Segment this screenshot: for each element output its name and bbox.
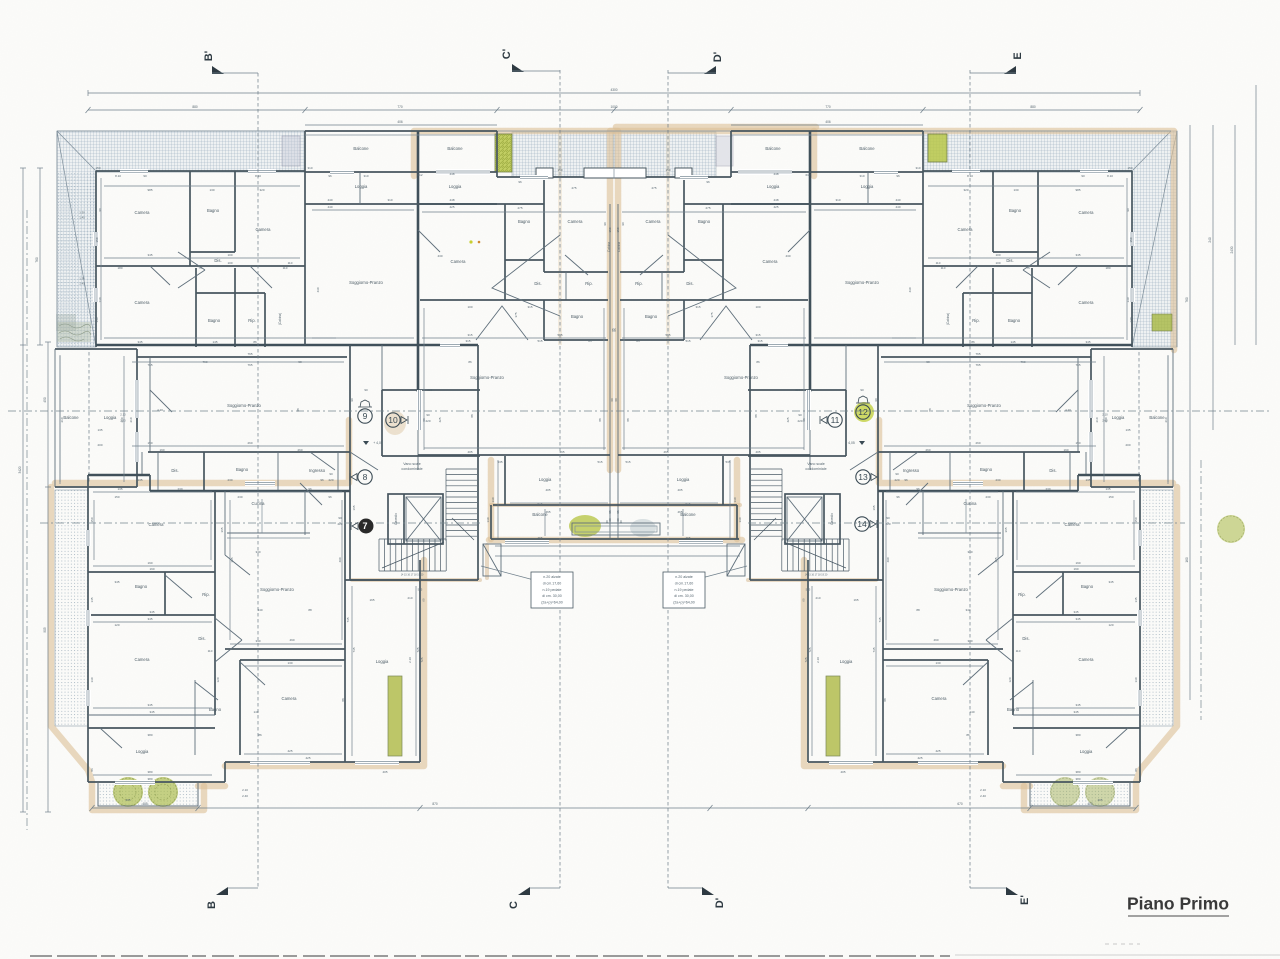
- svg-text:515: 515: [665, 333, 670, 337]
- svg-text:7: 7: [362, 521, 367, 531]
- vertical dash left margin: [26, 210, 28, 830]
- svg-text:Balcone: Balcone: [859, 146, 875, 151]
- green trees bottom-left terrace: [113, 777, 143, 807]
- svg-text:765: 765: [1075, 363, 1080, 367]
- svg-text:110: 110: [288, 261, 293, 265]
- terrace box bottom-left: [97, 782, 99, 806]
- svg-text:Camera: Camera: [135, 657, 151, 662]
- dotted terrace bottom-left wing: [98, 782, 198, 806]
- svg-text:150: 150: [1134, 517, 1138, 522]
- svg-text:100: 100: [995, 253, 1000, 257]
- svg-text:190: 190: [1073, 567, 1078, 571]
- green blob center balcony: [569, 515, 601, 537]
- svg-text:Piano Primo: Piano Primo: [1127, 894, 1229, 914]
- svg-text:86: 86: [1134, 768, 1138, 772]
- svg-text:Dis.: Dis.: [686, 281, 693, 286]
- svg-text:448: 448: [449, 198, 454, 202]
- svg-text:Rip.: Rip.: [635, 281, 642, 286]
- svg-text:380: 380: [1075, 733, 1080, 737]
- svg-text:D': D': [712, 51, 724, 62]
- svg-text:515: 515: [685, 502, 690, 506]
- svg-text:96: 96: [320, 478, 324, 482]
- svg-text:365: 365: [1004, 527, 1008, 532]
- svg-text:200: 200: [1125, 443, 1130, 447]
- stair block walls: [349, 345, 351, 580]
- svg-text:C': C': [501, 48, 513, 59]
- svg-text:515: 515: [557, 333, 562, 337]
- svg-text:210: 210: [407, 596, 412, 600]
- svg-text:430: 430: [785, 254, 790, 258]
- hatched terrace top-right corner: [923, 131, 1177, 347]
- svg-text:Bagno: Bagno: [207, 208, 220, 213]
- svg-text:985: 985: [1075, 188, 1080, 192]
- svg-text:Cabina: Cabina: [607, 242, 611, 252]
- svg-text:525: 525: [806, 588, 811, 592]
- svg-text:310: 310: [859, 174, 864, 178]
- svg-text:4.20: 4.20: [157, 408, 163, 412]
- svg-text:2.10: 2.10: [1102, 413, 1108, 417]
- svg-text:Soggiorno-Pranzo: Soggiorno-Pranzo: [470, 375, 504, 380]
- svg-text:230: 230: [237, 495, 242, 499]
- svg-text:440: 440: [895, 205, 900, 209]
- svg-text:310: 310: [307, 166, 312, 170]
- svg-text:405: 405: [545, 488, 550, 492]
- svg-text:Camera: Camera: [1079, 300, 1095, 305]
- svg-text:96: 96: [896, 174, 900, 178]
- svg-text:Bagno: Bagno: [518, 219, 531, 224]
- section line D dashes: [667, 70, 669, 888]
- svg-text:190: 190: [147, 441, 152, 445]
- balcone divider: [496, 131, 498, 177]
- svg-text:Cabina: Cabina: [617, 242, 621, 252]
- svg-text:765: 765: [975, 352, 980, 356]
- svg-text:Camera: Camera: [958, 227, 974, 232]
- svg-text:130: 130: [738, 517, 742, 522]
- horizontal centerline: [8, 410, 1272, 412]
- svg-text:165: 165: [369, 598, 374, 602]
- svg-text:275: 275: [651, 186, 656, 190]
- colored specks: [469, 240, 472, 243]
- lavender planter box right: [716, 136, 733, 166]
- svg-text:E': E': [1019, 895, 1031, 905]
- svg-text:210: 210: [129, 417, 133, 422]
- svg-text:380: 380: [147, 770, 152, 774]
- scan artifact bottom edge: [30, 955, 950, 957]
- svg-text:448: 448: [449, 172, 454, 176]
- svg-text:345: 345: [149, 710, 154, 714]
- svg-text:2.10: 2.10: [980, 788, 986, 792]
- crown vents: [358, 400, 372, 407]
- svg-text:60: 60: [610, 398, 614, 402]
- svg-text:230: 230: [227, 478, 232, 482]
- svg-text:448: 448: [773, 172, 778, 176]
- svg-text:345: 345: [147, 703, 152, 707]
- svg-text:86: 86: [966, 733, 970, 737]
- svg-text:770: 770: [397, 105, 403, 109]
- svg-text:130: 130: [287, 661, 292, 665]
- svg-text:150: 150: [616, 227, 620, 232]
- svg-text:Camera: Camera: [1079, 657, 1095, 662]
- svg-text:515: 515: [625, 460, 630, 464]
- interior dimension strings mid band: [132, 361, 344, 363]
- svg-text:425: 425: [917, 756, 922, 760]
- svg-text:448: 448: [773, 198, 778, 202]
- svg-text:180: 180: [1105, 266, 1110, 270]
- svg-text:260: 260: [120, 417, 124, 422]
- svg-text:Rip.: Rip.: [1018, 592, 1025, 597]
- svg-text:(Cabina): (Cabina): [278, 313, 282, 325]
- svg-text:88: 88: [916, 608, 920, 612]
- svg-text:9: 9: [363, 411, 368, 421]
- svg-text:96: 96: [518, 180, 522, 184]
- svg-text:210: 210: [60, 417, 64, 422]
- windows: [93, 232, 99, 246]
- svg-text:86: 86: [971, 340, 975, 344]
- balcone parapet double line: [305, 134, 497, 136]
- svg-text:Cucina: Cucina: [251, 501, 265, 506]
- svg-text:C: C: [508, 901, 520, 909]
- svg-text:770: 770: [825, 105, 831, 109]
- svg-text:85: 85: [636, 339, 640, 343]
- svg-text:140: 140: [95, 317, 99, 322]
- svg-text:n.19 pedate: n.19 pedate: [675, 588, 694, 592]
- svg-text:380: 380: [147, 777, 152, 781]
- svg-text:90: 90: [886, 516, 890, 520]
- svg-text:96: 96: [328, 174, 332, 178]
- svg-text:345: 345: [1075, 703, 1080, 707]
- svg-text:96: 96: [916, 487, 920, 491]
- svg-text:406: 406: [397, 120, 403, 124]
- svg-text:345: 345: [1085, 340, 1090, 344]
- svg-text:145: 145: [90, 597, 94, 602]
- svg-text:380: 380: [1075, 770, 1080, 774]
- green box right edge: [1152, 314, 1172, 331]
- svg-text:Rip.: Rip.: [972, 318, 979, 323]
- svg-text:130: 130: [1134, 677, 1138, 682]
- stair note box left: [531, 572, 573, 608]
- svg-text:Loggia: Loggia: [861, 184, 874, 189]
- svg-text:Dis.: Dis.: [171, 468, 178, 473]
- svg-text:Cucina: Cucina: [963, 501, 977, 506]
- svg-text:75: 75: [1026, 266, 1030, 270]
- svg-text:735: 735: [346, 617, 350, 622]
- svg-text:90: 90: [143, 174, 147, 178]
- svg-text:150: 150: [608, 227, 612, 232]
- svg-text:425: 425: [305, 756, 310, 760]
- svg-text:490: 490: [289, 638, 294, 642]
- svg-text:612: 612: [417, 173, 422, 177]
- svg-text:135: 135: [117, 487, 122, 491]
- svg-text:60: 60: [614, 398, 618, 402]
- svg-text:230: 230: [177, 487, 182, 491]
- svg-text:490: 490: [886, 557, 890, 562]
- svg-text:8.10: 8.10: [1107, 174, 1113, 178]
- tan highlight apartment C outline: [414, 131, 618, 470]
- svg-text:130: 130: [491, 497, 495, 502]
- svg-text:870: 870: [432, 802, 438, 806]
- svg-text:515: 515: [537, 502, 542, 506]
- svg-text:150: 150: [90, 517, 94, 522]
- svg-text:Bagno: Bagno: [208, 318, 221, 323]
- svg-text:4.20: 4.20: [1065, 408, 1071, 412]
- svg-text:Cavedio: Cavedio: [830, 513, 834, 525]
- svg-text:310: 310: [835, 198, 840, 202]
- svg-text:Loggia: Loggia: [539, 477, 552, 482]
- svg-text:315: 315: [755, 333, 760, 337]
- hatched terrace band center-right: [614, 132, 716, 177]
- svg-text:86: 86: [253, 340, 257, 344]
- svg-text:440: 440: [327, 205, 332, 209]
- svg-text:340: 340: [255, 550, 260, 554]
- svg-text:12: 12: [858, 407, 868, 417]
- svg-text:96: 96: [308, 487, 312, 491]
- svg-text:345: 345: [137, 340, 142, 344]
- svg-text:90: 90: [860, 388, 864, 392]
- tan highlight left outer edge: [51, 487, 204, 810]
- svg-text:2.40: 2.40: [242, 794, 248, 798]
- svg-text:88: 88: [598, 418, 602, 422]
- svg-text:275: 275: [705, 206, 710, 210]
- svg-text:Rip.: Rip.: [202, 592, 209, 597]
- svg-text:90: 90: [603, 222, 607, 226]
- interior dimension strings unit A: [104, 185, 300, 187]
- svg-text:250: 250: [795, 388, 800, 392]
- svg-text:di cm.17,60: di cm.17,60: [675, 581, 694, 585]
- svg-text:315: 315: [465, 339, 470, 343]
- svg-text:Soggiorno-Pranzo: Soggiorno-Pranzo: [724, 375, 758, 380]
- svg-text:405: 405: [677, 488, 682, 492]
- svg-text:condominiale: condominiale: [805, 467, 826, 471]
- svg-text:85: 85: [613, 328, 617, 332]
- svg-text:315: 315: [527, 305, 532, 309]
- svg-text:110: 110: [1016, 649, 1021, 653]
- svg-text:340: 340: [255, 639, 260, 643]
- svg-text:Bagno: Bagno: [1081, 584, 1094, 589]
- svg-text:Vano scale: Vano scale: [403, 462, 421, 466]
- svg-text:11: 11: [831, 415, 840, 425]
- svg-text:2.40: 2.40: [980, 794, 986, 798]
- svg-text:365: 365: [220, 527, 224, 532]
- svg-text:Camera: Camera: [135, 210, 151, 215]
- balcony back wall top: [305, 171, 497, 173]
- svg-text:Camera: Camera: [149, 522, 165, 527]
- tan smudge near marker 10: [384, 411, 406, 435]
- svg-text:135: 135: [1105, 487, 1110, 491]
- interior dimension strings balcone strips: [59, 356, 61, 482]
- svg-text:150: 150: [1129, 237, 1133, 242]
- stair treads lower flight: [378, 539, 380, 571]
- svg-text:Vano scale: Vano scale: [807, 462, 825, 466]
- svg-text:4300: 4300: [610, 88, 617, 92]
- svg-text:96: 96: [706, 180, 710, 184]
- svg-text:515: 515: [537, 339, 542, 343]
- svg-text:90: 90: [874, 398, 878, 402]
- svg-text:condominiale: condominiale: [401, 467, 422, 471]
- svg-text:450: 450: [43, 397, 47, 403]
- svg-text:145: 145: [1134, 597, 1138, 602]
- svg-text:465: 465: [545, 510, 550, 514]
- svg-text:765: 765: [975, 363, 980, 367]
- svg-text:425: 425: [449, 205, 454, 209]
- svg-text:96: 96: [896, 495, 900, 499]
- svg-text:88: 88: [296, 408, 300, 412]
- svg-text:90: 90: [426, 413, 430, 417]
- svg-text:Camera: Camera: [451, 259, 467, 264]
- svg-text:425: 425: [773, 205, 778, 209]
- svg-text:di cm. 30,00: di cm. 30,00: [542, 594, 562, 598]
- svg-text:405: 405: [467, 450, 472, 454]
- svg-text:725: 725: [420, 657, 424, 662]
- svg-text:230: 230: [1045, 487, 1050, 491]
- svg-text:220: 220: [328, 478, 333, 482]
- svg-text:765: 765: [147, 363, 152, 367]
- svg-text:130: 130: [90, 677, 94, 682]
- svg-text:Camera: Camera: [932, 696, 948, 701]
- svg-text:905: 905: [43, 627, 47, 633]
- stub below balcone: [483, 544, 501, 576]
- svg-text:220: 220: [894, 478, 899, 482]
- svg-text:2.10: 2.10: [408, 657, 412, 663]
- svg-text:465: 465: [537, 536, 542, 540]
- interior dimension strings unit B C: [312, 209, 414, 211]
- svg-text:Ingresso: Ingresso: [903, 468, 920, 473]
- tan highlight left wing right side: [198, 560, 424, 786]
- leader line note box: [481, 566, 534, 580]
- svg-text:Camera: Camera: [135, 300, 151, 305]
- svg-text:190: 190: [147, 561, 152, 565]
- svg-text:Soggiorno-Pranzo: Soggiorno-Pranzo: [845, 280, 879, 285]
- svg-text:Dis.: Dis.: [1006, 258, 1013, 263]
- svg-text:145: 145: [212, 340, 217, 344]
- svg-text:13: 13: [858, 472, 868, 482]
- tan highlight top-right terrace edge: [814, 131, 1174, 350]
- svg-text:120: 120: [1008, 677, 1012, 682]
- svg-text:E: E: [1012, 52, 1024, 59]
- svg-text:Loggia: Loggia: [1080, 749, 1093, 754]
- svg-text:88: 88: [754, 414, 758, 418]
- terrace inner wall center: [497, 176, 614, 178]
- svg-text:275: 275: [571, 186, 576, 190]
- svg-text:Bagno: Bagno: [1008, 318, 1021, 323]
- svg-text:190: 190: [1075, 561, 1080, 565]
- svg-text:880: 880: [192, 105, 198, 109]
- svg-text:14: 14: [857, 519, 867, 529]
- svg-text:345: 345: [1108, 580, 1113, 584]
- svg-text:90: 90: [798, 413, 802, 417]
- corner diagonals top-left: [57, 131, 96, 171]
- svg-text:985: 985: [147, 188, 152, 192]
- svg-text:190: 190: [1075, 441, 1080, 445]
- svg-text:Balcone: Balcone: [765, 146, 781, 151]
- svg-text:110: 110: [936, 261, 941, 265]
- svg-text:260: 260: [297, 448, 302, 452]
- tan highlight lower spine right: [879, 420, 1173, 483]
- svg-text:725: 725: [804, 657, 808, 662]
- right dimension lines: [1189, 125, 1191, 700]
- center party double wall: [613, 169, 615, 178]
- stair treads right flight: [446, 468, 477, 470]
- svg-text:Loggia: Loggia: [1112, 415, 1125, 420]
- svg-text:150: 150: [95, 166, 100, 170]
- scribble patch left edge: [57, 322, 91, 342]
- dotted terrace strip left edge: [55, 490, 88, 726]
- svg-text:440: 440: [895, 198, 900, 202]
- svg-text:310: 310: [915, 166, 920, 170]
- svg-text:90: 90: [621, 222, 625, 226]
- svg-text:D': D': [714, 897, 726, 908]
- svg-text:375: 375: [710, 312, 714, 317]
- svg-text:110: 110: [941, 266, 946, 270]
- svg-text:240: 240: [1208, 237, 1212, 243]
- loggia inner wall top: [305, 203, 497, 205]
- corridor divider walls: [157, 452, 159, 490]
- svg-text:Camera: Camera: [646, 219, 662, 224]
- cucina counter: [227, 532, 310, 534]
- elevator shaft: [388, 494, 443, 544]
- svg-text:140: 140: [1129, 317, 1133, 322]
- svg-text:880: 880: [1030, 105, 1036, 109]
- windows top band center: [584, 168, 646, 178]
- tan faint section line tints: [558, 128, 562, 345]
- vertical dash right margin: [1200, 460, 1202, 720]
- svg-text:Loggia: Loggia: [136, 749, 149, 754]
- svg-text:725: 725: [808, 647, 812, 652]
- svg-text:150: 150: [95, 237, 99, 242]
- svg-text:260: 260: [925, 448, 930, 452]
- svg-text:96: 96: [328, 495, 332, 499]
- svg-text:735: 735: [878, 617, 882, 622]
- svg-text:75: 75: [198, 266, 202, 270]
- svg-text:405: 405: [382, 770, 387, 774]
- svg-text:430: 430: [908, 287, 912, 292]
- unit A exterior walls: [96, 170, 305, 172]
- svg-text:465: 465: [677, 510, 682, 514]
- svg-text:Loggia: Loggia: [104, 415, 117, 420]
- svg-text:230: 230: [995, 478, 1000, 482]
- svg-text:86: 86: [258, 733, 262, 737]
- svg-text:Dis.: Dis.: [534, 281, 541, 286]
- svg-text:345: 345: [1073, 610, 1078, 614]
- svg-text:Loggia: Loggia: [767, 184, 780, 189]
- svg-text:100: 100: [995, 261, 1000, 265]
- svg-text:Rip.: Rip.: [585, 281, 592, 286]
- green strip left wing loggia: [388, 676, 402, 756]
- svg-text:100: 100: [227, 261, 232, 265]
- svg-text:130: 130: [733, 497, 737, 502]
- svg-text:405: 405: [142, 802, 148, 806]
- main spine wall upper: [96, 344, 478, 347]
- svg-text:345: 345: [147, 253, 152, 257]
- svg-text:120: 120: [114, 623, 119, 627]
- lavender planter box left: [282, 136, 300, 166]
- svg-text:760: 760: [1185, 297, 1189, 303]
- green planter box center-right: [928, 134, 947, 162]
- svg-text:Dis.: Dis.: [1022, 636, 1029, 641]
- svg-text:96: 96: [904, 478, 908, 482]
- svg-text:130: 130: [209, 188, 214, 192]
- svg-text:8.10: 8.10: [255, 174, 261, 178]
- svg-text:88: 88: [470, 414, 474, 418]
- svg-text:90: 90: [329, 472, 333, 476]
- svg-text:Soggiorno-Pranzo: Soggiorno-Pranzo: [934, 587, 968, 592]
- svg-text:B': B': [203, 50, 215, 61]
- svg-text:10: 10: [388, 415, 398, 425]
- svg-text:345: 345: [149, 610, 154, 614]
- svg-text:310: 310: [363, 174, 368, 178]
- svg-text:405: 405: [840, 770, 845, 774]
- green halo marker 12: [854, 402, 874, 422]
- top dimension line spans: [88, 109, 1140, 111]
